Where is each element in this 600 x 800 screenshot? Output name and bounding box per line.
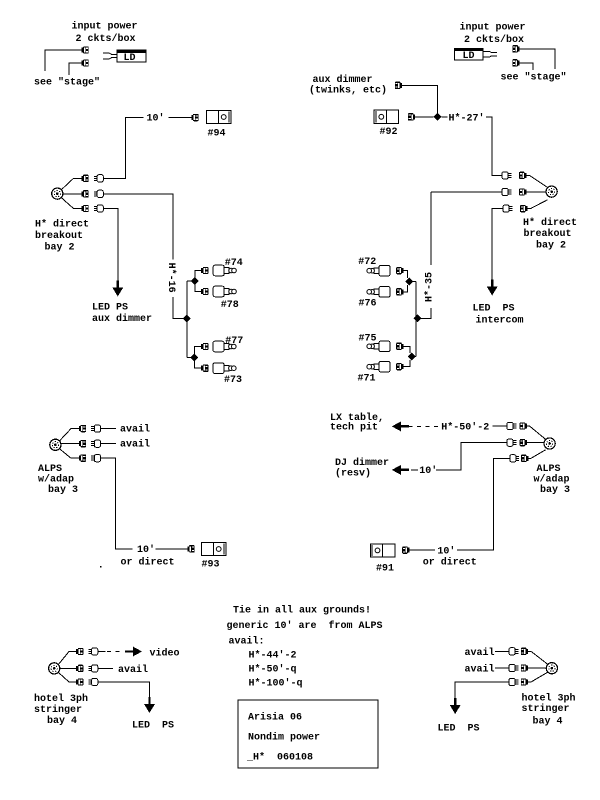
plug P34 stringer-R row 2	[521, 664, 528, 671]
stray mark	[100, 566, 102, 568]
svg-text:10': 10'	[437, 545, 455, 557]
wire stage feed 2 (top right)	[520, 63, 533, 70]
LD unit U2 box	[455, 48, 484, 60]
multipin breakout J-A bay 2 (left)	[52, 188, 63, 199]
connector body circuit 71	[367, 361, 390, 372]
wire cluster main vertical (right)	[415, 282, 417, 357]
svg-text:#94: #94	[208, 129, 226, 140]
svg-text:or direct: or direct	[423, 556, 477, 568]
junction J4 (H*-27 tee)	[434, 113, 442, 121]
svg-text:10': 10'	[147, 113, 165, 125]
wire net H*-27' to breakout B	[486, 117, 502, 175]
svg-text:LD: LD	[463, 51, 475, 62]
svg-text:avail: avail	[118, 664, 148, 676]
svg-text:2 ckts/box: 2 ckts/box	[464, 34, 524, 46]
wire avail stub (stringer-L)	[98, 667, 113, 669]
title block box	[238, 700, 378, 768]
socket S5 breakout B row 2	[502, 188, 511, 195]
wire ALPS-R row 1 diagonal	[527, 426, 546, 440]
svg-text:#73: #73	[224, 375, 242, 386]
svg-text:LED PS: LED PS	[473, 304, 515, 315]
arrow to LED PS (bay 4 left)	[144, 697, 155, 713]
svg-text:bay 3: bay 3	[48, 484, 78, 496]
svg-text:or direct: or direct	[121, 557, 175, 569]
svg-text:DJ dimmer: DJ dimmer	[335, 457, 389, 469]
arrow to LED PS aux dimmer	[113, 281, 124, 297]
svg-text:avail: avail	[465, 663, 495, 675]
wire 10' to DJ arrow	[411, 469, 418, 471]
svg-text:Arisia 06: Arisia 06	[248, 712, 302, 724]
svg-text:bay 3: bay 3	[540, 484, 570, 496]
plug P21 circuit 71	[396, 363, 403, 370]
junction J3 (circuits 77/73)	[190, 354, 198, 362]
wire stage feed 1 (top right)	[520, 49, 555, 69]
wire cluster main vertical (left)	[186, 281, 188, 358]
wire breakout B row 3 diagonal	[527, 200, 547, 209]
wire ALPS-L row 1	[60, 429, 79, 441]
wire breakout A row 3	[62, 198, 82, 209]
socket S3 breakout A row 3	[94, 205, 103, 212]
LD unit U1 box	[117, 50, 146, 62]
svg-text:_H* 060108: _H* 060108	[246, 751, 313, 763]
wire avail stub 1 (stringer-R)	[495, 650, 509, 652]
wire to LED PS (bay 4 left)	[98, 682, 150, 705]
connector body circuit 73	[213, 363, 236, 374]
svg-text:aux dimmer: aux dimmer	[313, 74, 373, 86]
plug P24 ALPS-L row 3	[79, 455, 86, 462]
svg-text:H*-44'-2: H*-44'-2	[249, 649, 297, 661]
plug P14 from dimmer 92	[408, 113, 415, 120]
junction J5 on net H*-35	[413, 314, 421, 322]
wire stage feed 2 (top left)	[69, 63, 82, 75]
socket S8 ALPS-L row 2	[91, 440, 100, 447]
wire branch circuit 73	[195, 361, 202, 368]
socket S18 stringer-R row 3	[509, 678, 518, 685]
svg-text:#71: #71	[358, 374, 376, 385]
dimmer box #91	[370, 544, 395, 557]
multipin breakout J-C bay 3 (left ALPS)	[50, 439, 61, 450]
plug P15 breakout B row 1	[519, 172, 526, 179]
wire stub to junction J2	[187, 280, 191, 282]
dimmer box #94	[206, 110, 231, 123]
svg-text:hotel 3ph: hotel 3ph	[34, 693, 88, 705]
socket S2 breakout A row 2	[94, 190, 103, 197]
wire branch circuit 78	[195, 285, 201, 292]
wire 10' run to dimmer 94	[103, 118, 143, 179]
svg-text:generic 10' are from ALPS: generic 10' are from ALPS	[227, 620, 383, 632]
plug P8 circuit 78	[201, 288, 208, 295]
plug P3 to dimmer 94	[191, 114, 198, 121]
plug P10 circuit 73	[201, 365, 208, 372]
connector body circuit 75	[367, 341, 390, 352]
socket S15 stringer-L row 3	[88, 678, 97, 685]
wire 10' run to dimmer 93	[101, 458, 133, 549]
dimmer box #93	[201, 542, 226, 555]
plug P12 input ckt 2 (right)	[512, 59, 519, 66]
svg-text:bay 4: bay 4	[533, 716, 563, 728]
wire dashed net H*-50'-2	[409, 425, 439, 427]
wire 10' run to dimmer 91	[457, 458, 510, 550]
plug P28 ALPS-R row 3	[521, 455, 528, 462]
svg-text:H* direct: H* direct	[523, 217, 577, 229]
svg-text:Nondim power: Nondim power	[248, 731, 320, 743]
svg-text:video: video	[150, 647, 180, 659]
wire net H*-16 lower segment	[173, 297, 183, 318]
wire breakout B row 2	[526, 191, 546, 193]
wire stub to junction J6	[412, 281, 416, 283]
LD unit U2 cord prongs	[483, 51, 497, 52]
svg-text:LED PS: LED PS	[92, 303, 128, 314]
svg-text:(twinks, etc): (twinks, etc)	[309, 85, 387, 97]
svg-text:H*-100'-q: H*-100'-q	[249, 678, 303, 690]
wire breakout B row 1 diagonal	[526, 175, 547, 187]
svg-text:#93: #93	[202, 560, 220, 571]
svg-text:#77: #77	[225, 336, 243, 347]
svg-text:Tie in all aux grounds!: Tie in all aux grounds!	[233, 605, 371, 617]
svg-text:#92: #92	[380, 127, 398, 138]
svg-text:H*-50'-2: H*-50'-2	[441, 421, 489, 433]
socket S13 stringer-L row 1	[88, 648, 97, 655]
svg-text:see "stage": see "stage"	[501, 72, 567, 84]
wire branch circuit 77	[195, 347, 202, 355]
socket S11 ALPS-R row 2	[507, 439, 516, 446]
plug P20 circuit 75	[396, 343, 403, 350]
svg-text:#72: #72	[358, 257, 376, 268]
plug P4 breakout A row 1	[82, 175, 89, 182]
svg-text:aux dimmer: aux dimmer	[92, 313, 152, 325]
svg-text:#91: #91	[376, 564, 394, 575]
plug P17 breakout B row 3	[520, 205, 527, 212]
svg-text:LD: LD	[124, 53, 136, 64]
connector body circuit 72	[367, 265, 390, 276]
svg-text:input power: input power	[72, 21, 138, 33]
svg-text:#75: #75	[359, 333, 377, 344]
svg-text:10': 10'	[137, 544, 155, 556]
socket S9 ALPS-L row 3	[91, 455, 100, 462]
svg-text:breakout: breakout	[35, 230, 83, 242]
svg-text:(resv): (resv)	[335, 468, 371, 480]
wire stringer-R row 2	[528, 667, 546, 669]
wire stringer-R row 3 diagonal	[528, 672, 548, 682]
wire aux dimmer tap	[402, 85, 438, 113]
plug P9 circuit 77	[201, 343, 208, 350]
svg-text:see "stage": see "stage"	[34, 77, 100, 89]
svg-text:ALPS: ALPS	[537, 464, 561, 475]
wire ALPS-R row 3 diagonal	[528, 450, 545, 459]
plug P6 breakout A row 3	[82, 205, 89, 212]
multipin stringer J-F bay 4 (right)	[546, 663, 557, 674]
svg-text:bay 4: bay 4	[47, 715, 77, 727]
wire dashed video run	[98, 651, 106, 653]
svg-text:#74: #74	[225, 258, 243, 269]
wire stringer-L row 1	[58, 652, 76, 665]
multipin breakout J-D bay 3 (right ALPS)	[544, 438, 555, 449]
plug P27 ALPS-R row 2	[520, 439, 527, 446]
wire to LED PS (bay 4 right)	[455, 682, 509, 706]
wire avail stub 2	[101, 443, 117, 445]
junction J1 on net H*-16	[183, 314, 191, 322]
svg-text:avail: avail	[120, 424, 150, 436]
svg-text:#76: #76	[359, 299, 377, 310]
svg-text:#78: #78	[221, 300, 239, 311]
dimmer box #92	[374, 110, 399, 123]
arrow to DJ dimmer	[392, 465, 409, 475]
junction J6 (circuits 72/76)	[405, 278, 413, 286]
svg-text:input power: input power	[460, 22, 526, 34]
wire breakout A row 1	[62, 178, 82, 189]
wire 10' run left segment (ALPS-R)	[409, 549, 434, 551]
svg-text:stringer: stringer	[522, 703, 570, 715]
junction J2 (circuits 74/78)	[191, 277, 199, 285]
wire branch circuit 75	[403, 346, 410, 353]
arrow to LX table	[392, 422, 409, 432]
svg-text:LED PS: LED PS	[132, 721, 174, 732]
socket S1 breakout A row 1	[94, 175, 103, 182]
socket S12 ALPS-R row 3	[510, 455, 519, 462]
wire 10' run right segment	[169, 117, 192, 119]
plug P1 input ckt 1	[82, 46, 89, 53]
svg-text:bay 2: bay 2	[536, 240, 566, 252]
plug P29 to dimmer 91	[402, 547, 409, 554]
svg-text:10': 10'	[419, 465, 437, 477]
svg-text:H*-35: H*-35	[424, 272, 436, 302]
wire ALPS-L row 3	[60, 449, 79, 458]
wire stringer-L row 2	[60, 667, 76, 669]
wire avail stub 1	[101, 428, 117, 430]
arrow to video	[125, 647, 142, 657]
wire branch circuit 76	[403, 285, 407, 292]
wire to LED PS intercom	[492, 209, 503, 287]
plug P16 breakout B row 2	[519, 188, 526, 195]
junction J7 (circuits 75/71)	[408, 353, 416, 361]
connector body circuit 74	[213, 265, 236, 276]
svg-text:H*-16: H*-16	[165, 263, 177, 293]
wire net H*-35 upper segment	[430, 192, 432, 265]
wire avail stub 2 (stringer-R)	[495, 667, 509, 669]
multipin breakout J-B bay 2 (right)	[546, 186, 557, 197]
arrow to LED PS (bay 4 right)	[450, 698, 461, 714]
connector body circuit 76	[367, 287, 390, 298]
socket S17 stringer-R row 2	[509, 664, 518, 671]
svg-text:ALPS: ALPS	[38, 464, 62, 475]
wire ALPS-L row 2	[61, 443, 79, 445]
wire DJ dimmer run	[436, 443, 507, 470]
wire net H*-35 feed	[431, 191, 502, 193]
wire net H*-16 upper segment	[103, 194, 173, 260]
plug P18 circuit 72	[396, 267, 403, 274]
plug P30 stringer-L row 1	[76, 648, 83, 655]
svg-text:hotel 3ph: hotel 3ph	[522, 692, 576, 704]
wire H*-50'-2 to socket	[493, 425, 507, 427]
socket S6 breakout B row 3	[503, 205, 512, 212]
connector body circuit 77	[213, 341, 236, 352]
svg-text:H*-27': H*-27'	[449, 113, 485, 125]
svg-text:w/adap: w/adap	[38, 474, 74, 486]
plug P32 stringer-L row 3	[76, 678, 83, 685]
svg-text:w/adap: w/adap	[534, 474, 570, 486]
socket S7 ALPS-L row 1	[91, 425, 100, 432]
wire dimmer 92 to junction	[415, 116, 433, 118]
socket S10 ALPS-R row 1	[507, 422, 516, 429]
svg-text:stringer: stringer	[34, 704, 82, 716]
svg-text:intercom: intercom	[476, 315, 524, 327]
wire stub to junction J3	[187, 357, 191, 359]
connector body circuit 78	[213, 286, 236, 297]
svg-text:avail:: avail:	[229, 636, 265, 648]
plug P11 input ckt 1 (right)	[512, 45, 519, 52]
socket S14 stringer-L row 2	[88, 665, 97, 672]
arrow to LED PS intercom	[487, 280, 498, 296]
wire to LED PS aux dimmer	[103, 209, 118, 289]
plug P35 stringer-R row 3	[521, 678, 528, 685]
wire breakout A row 2	[63, 193, 82, 195]
wire branch circuit 74	[195, 271, 201, 278]
socket S4 breakout B row 1	[502, 172, 511, 179]
svg-text:H* direct: H* direct	[35, 219, 89, 231]
plug P13 aux dimmer tap	[395, 82, 402, 89]
wire net H*-35 lower segment	[421, 308, 431, 318]
wire 10' run right segment (ALPS-L)	[156, 548, 188, 550]
multipin stringer J-E bay 4 (left)	[49, 663, 60, 674]
svg-text:avail: avail	[465, 647, 495, 659]
svg-text:avail: avail	[120, 439, 150, 451]
svg-text:breakout: breakout	[524, 228, 572, 240]
socket S16 stringer-R row 1	[509, 648, 518, 655]
wire ALPS-R row 2	[527, 442, 544, 444]
wire junction to H*-27 label	[442, 116, 448, 118]
svg-text:tech pit: tech pit	[330, 422, 378, 434]
wire branch circuit 71	[403, 360, 410, 367]
wire branch circuit 72	[403, 271, 407, 278]
plug P5 breakout A row 2	[82, 190, 89, 197]
wire stage feed 1 (top left)	[45, 50, 82, 71]
svg-text:2 ckts/box: 2 ckts/box	[76, 33, 136, 45]
plug P25 to dimmer 93	[187, 545, 194, 552]
svg-text:LED PS: LED PS	[438, 724, 480, 735]
plug P22 ALPS-L row 1	[79, 425, 86, 432]
plug P19 circuit 76	[396, 288, 403, 295]
wire stringer-L row 3	[58, 672, 76, 682]
LD unit U1 cord prongs	[103, 53, 117, 54]
plug P33 stringer-R row 1	[521, 648, 528, 655]
plug P31 stringer-L row 2	[76, 665, 83, 672]
plug P2 input ckt 2	[82, 59, 89, 66]
wire stringer-R row 1 diagonal	[528, 651, 548, 664]
plug P23 ALPS-L row 2	[79, 440, 86, 447]
plug P26 ALPS-R row 1	[520, 422, 527, 429]
wire stub to junction J7	[414, 356, 417, 358]
svg-text:bay 2: bay 2	[45, 242, 75, 254]
plug P7 circuit 74	[201, 267, 208, 274]
svg-text:H*-50'-q: H*-50'-q	[249, 663, 297, 675]
